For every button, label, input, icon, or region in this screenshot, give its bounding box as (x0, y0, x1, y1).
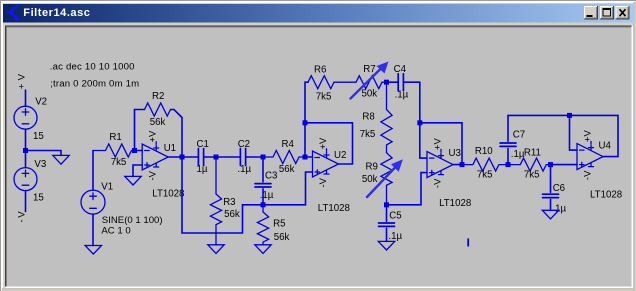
resistor R6 (308, 76, 356, 89)
svg-text:.1µ: .1µ (395, 90, 409, 101)
wire V2 to junction (25, 129, 27, 150)
resistor R9 (381, 153, 392, 205)
svg-text:7k5: 7k5 (360, 129, 376, 140)
svg-text:C5: C5 (389, 210, 401, 221)
svg-text:.1µ: .1µ (237, 164, 251, 175)
V2 label (35, 97, 47, 108)
wire U2 noninverting input from C3 (263, 172, 313, 205)
R6 value 7k5 (316, 92, 332, 103)
R9 trim arrow (367, 159, 403, 197)
spice directive .tran (50, 78, 139, 89)
C7 value .1µ (511, 149, 525, 160)
node junction C4/U3 input (417, 120, 422, 125)
ground R5 (255, 245, 271, 254)
svg-text:50k: 50k (362, 89, 378, 100)
R7 label (363, 64, 375, 75)
C2 label (238, 139, 250, 150)
wire R6 riser (305, 82, 308, 123)
title bar (3, 4, 633, 23)
svg-text:U1: U1 (164, 143, 176, 154)
wire U4 inverting input (570, 115, 578, 150)
op-amp U4 (577, 130, 603, 181)
capacitor C6 (543, 165, 559, 211)
R9 label (366, 161, 378, 172)
node junction R11/C6/U4 (548, 162, 553, 167)
R7 trim arrow (351, 62, 389, 99)
R7 value 50k (362, 89, 378, 100)
svg-text:+V: +V (16, 71, 27, 89)
svg-text:15: 15 (33, 193, 44, 204)
V3 label (34, 159, 46, 170)
svg-text:56k: 56k (150, 117, 166, 128)
wire C4 to U3 feedback box (420, 82, 462, 164)
app icon (7, 5, 20, 21)
wire R2 feedback left (135, 110, 145, 151)
resistor R8 (381, 82, 392, 153)
svg-text:.1µ: .1µ (388, 231, 402, 242)
svg-text:R4: R4 (282, 139, 295, 150)
C4 value .1µ (395, 90, 409, 101)
node junction U3 output (460, 162, 465, 167)
svg-text:+V: +V (583, 130, 594, 143)
node junction C2/C3/R4 (261, 155, 266, 160)
svg-text:C2: C2 (238, 139, 250, 150)
R8 label (362, 112, 374, 123)
node junction V2/V3 (23, 148, 28, 153)
svg-text:LT1028: LT1028 (590, 189, 622, 200)
C6 value 1µ (555, 204, 566, 215)
ground supply rail (53, 155, 69, 164)
resistor R10 (462, 158, 508, 171)
wire U1 output loop bottom (182, 157, 263, 233)
node -V label (16, 210, 27, 223)
svg-text:U2: U2 (334, 150, 346, 161)
svg-text:7k5: 7k5 (477, 170, 493, 181)
wire U1 inverting input (135, 150, 143, 152)
svg-text:+V: +V (318, 137, 329, 150)
ground C5 (378, 241, 394, 250)
C5 value .1µ (388, 231, 402, 242)
svg-text:-V: -V (16, 210, 27, 223)
svg-text:R10: R10 (475, 146, 493, 157)
close button (616, 6, 630, 20)
spice directive .ac (50, 61, 135, 72)
svg-text:C1: C1 (197, 139, 209, 150)
svg-text:56k: 56k (224, 209, 240, 220)
R5 label (273, 219, 285, 230)
wire U3 noninverting input from C5 (387, 173, 428, 205)
C4 label (394, 64, 407, 75)
R10 label (475, 146, 493, 157)
svg-text:C7: C7 (513, 130, 525, 141)
svg-text:-V: -V (148, 170, 159, 180)
svg-text:R5: R5 (273, 219, 285, 230)
svg-text:.ac dec 10 10 1000: .ac dec 10 10 1000 (50, 61, 135, 72)
voltage source V1 (81, 190, 105, 214)
svg-text:U4: U4 (599, 141, 612, 152)
svg-text:C6: C6 (553, 183, 565, 194)
resistor R11 (508, 158, 551, 171)
svg-text:7k5: 7k5 (524, 170, 540, 181)
node junction R1/U1 (132, 148, 137, 153)
svg-text:-V: -V (318, 177, 329, 187)
U3 designator label (449, 148, 461, 159)
R11 label (524, 148, 541, 159)
R6 label (314, 65, 326, 76)
svg-text:V3: V3 (34, 159, 46, 170)
svg-text:C3: C3 (265, 171, 277, 182)
svg-text:56k: 56k (274, 232, 290, 243)
C2 value .1µ (237, 164, 251, 175)
R11 value 7k5 (524, 170, 540, 181)
svg-text:7k5: 7k5 (316, 92, 332, 103)
title text (23, 7, 90, 19)
ground U1 input (125, 176, 141, 185)
wire +V to V2 (25, 90, 27, 106)
ground V1 (85, 246, 101, 255)
svg-text:LT1028: LT1028 (318, 203, 350, 214)
node junction U4 feedback (567, 113, 572, 118)
svg-text:;tran 0 200m 0m 1m: ;tran 0 200m 0m 1m (50, 78, 139, 89)
U2 designator label (334, 150, 346, 161)
node junction C1/C2/R3 (214, 155, 219, 160)
voltage source V3 (14, 168, 37, 191)
R5 value 56k (274, 232, 290, 243)
svg-text:V1: V1 (101, 182, 113, 193)
R1 label (109, 132, 121, 143)
V1 label (101, 182, 113, 193)
ground R3 (208, 245, 224, 254)
svg-text:+V: +V (148, 130, 159, 143)
svg-text:Filter14.asc: Filter14.asc (23, 7, 90, 19)
R4 label (282, 139, 295, 150)
svg-text:R11: R11 (524, 148, 541, 159)
R3 value 56k (224, 209, 240, 220)
U4 value label LT1028 (590, 189, 622, 200)
wire U4 noninverting input (551, 164, 578, 166)
minimize button (584, 6, 598, 20)
U1 value label LT1028 (152, 188, 184, 199)
capacitor C4 (387, 74, 420, 91)
wire U2 inverting input (305, 156, 313, 158)
stray wire stub (467, 239, 469, 247)
node +V label (16, 71, 27, 89)
wire U3 inverting input (420, 123, 427, 158)
wire V1 to R1 (92, 151, 94, 191)
svg-text:R8: R8 (362, 112, 374, 123)
C1 label (197, 139, 209, 150)
U1 designator label (164, 143, 176, 154)
svg-text:-V: -V (583, 170, 594, 180)
R2 value 56k (150, 117, 166, 128)
svg-text:U3: U3 (449, 148, 461, 159)
node junction R10/C7/R11 (506, 162, 511, 167)
svg-text:7k5: 7k5 (111, 157, 127, 168)
ground C6 (542, 210, 558, 219)
svg-text:C4: C4 (394, 64, 407, 75)
C1 value 1µ (197, 164, 208, 175)
op-amp U1 (142, 130, 168, 181)
svg-text:50k: 50k (362, 174, 378, 185)
svg-text:LT1028: LT1028 (152, 188, 184, 199)
capacitor C2 (216, 149, 263, 166)
svg-text:15: 15 (33, 131, 44, 142)
wire V3 to -V (25, 191, 27, 212)
C3 value .1µ (260, 190, 274, 201)
node junction R9/C5/U3 (384, 202, 389, 207)
node junction U1 output (180, 155, 185, 160)
wire U2 feedback box (305, 123, 353, 164)
resistor R7 (356, 76, 387, 89)
U2 value label LT1028 (318, 203, 350, 214)
svg-text:1µ: 1µ (197, 164, 208, 175)
capacitor C3 (255, 157, 271, 205)
svg-text:56k: 56k (279, 164, 295, 175)
R2 label (152, 91, 164, 102)
wire U4 feedback box (570, 115, 619, 156)
wire V1 to ground (92, 214, 94, 245)
capacitor C5 (379, 205, 395, 242)
R9 value 50k (362, 174, 378, 185)
svg-text:V2: V2 (35, 97, 47, 108)
wire U1 output (168, 156, 182, 158)
wire junction to ground (26, 151, 62, 156)
svg-text:LT1028: LT1028 (439, 198, 471, 209)
svg-text:R1: R1 (109, 132, 121, 143)
wire U1 noninverting input to ground (133, 165, 142, 176)
svg-text:+V: +V (433, 138, 444, 151)
svg-text:AC 1 0: AC 1 0 (101, 226, 130, 237)
node junction R7/C4/R8 (384, 80, 389, 85)
R4 value 56k (279, 164, 295, 175)
C5 label (389, 210, 401, 221)
V3 value 15 (33, 193, 44, 204)
V1 value AC (101, 226, 130, 237)
resistor R4 (263, 151, 305, 164)
U3 value label LT1028 (439, 198, 471, 209)
resistor R5 (257, 205, 268, 245)
R1 value 7k5 (111, 157, 127, 168)
op-amp U3 (427, 138, 453, 189)
R3 label (223, 197, 235, 208)
capacitor C1 (182, 149, 216, 166)
node junction C3/R5/U2 (261, 202, 266, 207)
svg-text:.1µ: .1µ (260, 190, 274, 201)
svg-text:-V: -V (433, 178, 444, 188)
V1 value SINE (102, 215, 163, 226)
svg-text:R2: R2 (152, 91, 164, 102)
C3 label (265, 171, 277, 182)
op-amp U2 (313, 137, 339, 188)
svg-text:R6: R6 (314, 65, 326, 76)
wire R2 feedback right with bevel (171, 110, 183, 158)
wire C7 top to U4 feedback (508, 114, 570, 116)
R10 value 7k5 (477, 170, 493, 181)
node junction R4/U2 input (303, 155, 308, 160)
R8 value 7k5 (360, 129, 376, 140)
maximize button (600, 6, 614, 20)
svg-text:R9: R9 (366, 161, 378, 172)
node junction U2 feedback/R6 (303, 120, 308, 125)
resistor R1 (93, 144, 135, 157)
svg-text:R7: R7 (363, 64, 375, 75)
resistor R2 (145, 103, 171, 116)
C7 label (513, 130, 525, 141)
V2 value 15 (33, 131, 44, 142)
capacitor C7 (500, 115, 516, 164)
voltage source V2 (14, 106, 37, 129)
U4 designator label (599, 141, 612, 152)
svg-text:R3: R3 (223, 197, 235, 208)
resistor R3 (210, 157, 221, 245)
wire junction to V3 (25, 151, 27, 168)
C6 label (553, 183, 565, 194)
